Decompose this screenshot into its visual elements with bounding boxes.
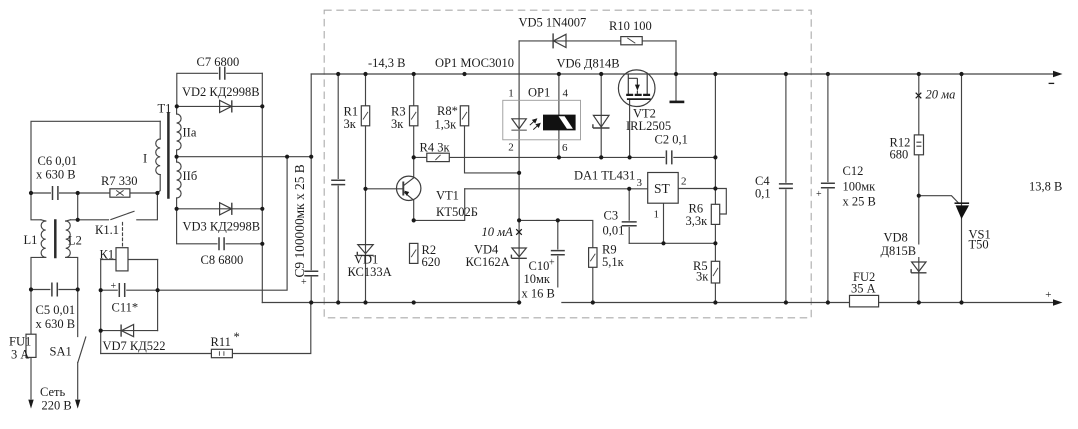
svg-text:Сеть: Сеть (40, 385, 66, 399)
wire C3 column (628, 189, 630, 244)
capacitor C4 (778, 183, 793, 190)
svg-text:+: + (549, 258, 555, 269)
node mains section (29, 191, 33, 195)
wire TL431 ref row (465, 188, 648, 190)
measurement cross 20mA (916, 93, 922, 99)
diode VD7 (121, 325, 134, 337)
svg-text:620: 620 (422, 255, 441, 269)
svg-text:VD2 КД2998В: VD2 КД2998В (182, 85, 260, 99)
svg-text:С9 100000мк х 25 В: С9 100000мк х 25 В (292, 164, 307, 277)
wire VT1 emitter lead (413, 200, 415, 220)
svg-text:VD5 1N4007: VD5 1N4007 (519, 16, 587, 30)
svg-text:3: 3 (637, 177, 643, 189)
svg-text:VT1: VT1 (436, 189, 459, 203)
zener diode VD4 (511, 248, 526, 258)
svg-text:IIб: IIб (183, 169, 198, 183)
wire top-left loop (31, 121, 160, 193)
capacitor C10 (electrolytic) (550, 250, 565, 256)
chassis ground (670, 101, 685, 104)
svg-text:х 630 В: х 630 В (36, 317, 76, 331)
svg-text:10 мА: 10 мА (482, 225, 514, 239)
wire VD5/R10 row (519, 40, 676, 42)
wire VD7 row (101, 330, 158, 332)
svg-text:С6 0,01: С6 0,01 (38, 154, 78, 168)
wire R1/VD1 column (365, 74, 367, 303)
wire R4 / gate row (414, 156, 716, 158)
svg-text:КС133А: КС133А (348, 265, 392, 279)
wire OP1 pin1/pin2 column (518, 41, 520, 303)
svg-text:VD8: VD8 (884, 231, 908, 245)
svg-text:КС162А: КС162А (466, 255, 510, 269)
node top bus junctions (336, 72, 340, 76)
capacitor C1 (331, 179, 346, 186)
wire R10 riser (675, 41, 677, 74)
switch SA1 blade (78, 337, 86, 362)
resistor R6 (trimmer) (711, 204, 719, 224)
diode VD5 (553, 33, 566, 48)
wire C5 row (31, 289, 78, 291)
switch K1.1 blade (111, 211, 134, 219)
svg-text:IRL2505: IRL2505 (626, 119, 671, 133)
wire C2/R6/R5 column (714, 74, 716, 303)
svg-text:35 А: 35 А (851, 282, 876, 296)
transformer T1 winding IIa (176, 106, 178, 114)
svg-text:10мк: 10мк (524, 272, 551, 286)
svg-text:0,1: 0,1 (755, 187, 771, 201)
resistor R4 (427, 153, 450, 161)
zener diode VD8 (911, 262, 926, 273)
svg-text:С3: С3 (604, 209, 619, 223)
fuse FU1 (26, 334, 36, 357)
node OP1 pin2 column (517, 171, 521, 175)
transformer T1 winding IIb (176, 157, 178, 162)
opto LED (511, 119, 526, 130)
svg-text:+: + (1045, 289, 1051, 301)
opto triac (543, 115, 576, 131)
svg-text:I: I (143, 152, 147, 166)
arrow plus output (1053, 299, 1063, 305)
svg-text:DA1 TL431: DA1 TL431 (574, 169, 635, 183)
resistor R11 (211, 349, 232, 357)
svg-text:+: + (816, 189, 822, 200)
svg-text:FU1: FU1 (9, 335, 31, 349)
svg-text:5,1к: 5,1к (602, 255, 625, 269)
resistor R8 (460, 106, 468, 126)
optocoupler OP1 box (503, 100, 581, 140)
wire SA1 column (77, 290, 79, 399)
minus bus (top, -14,3 V) (311, 73, 1055, 75)
svg-text:1: 1 (508, 88, 514, 100)
wire riser top-bus to center tap (310, 74, 312, 157)
svg-text:L2: L2 (68, 234, 82, 248)
capacitor C8 (218, 237, 226, 251)
IC DA1 TL431 box (648, 173, 679, 204)
wire VT2 gate lead (629, 99, 631, 157)
plus bus (bottom) (262, 302, 1055, 304)
resistor R3 (410, 106, 418, 126)
resistor R7 (110, 189, 130, 197)
svg-text:ОР1 МОС3010: ОР1 МОС3010 (435, 56, 514, 70)
fuse FU2 (850, 295, 879, 307)
wire TL431 pin2 row (678, 188, 715, 190)
svg-text:+: + (111, 281, 117, 292)
svg-text:4: 4 (563, 88, 569, 100)
svg-text:Д815В: Д815В (881, 244, 917, 258)
svg-text:С10: С10 (529, 259, 550, 273)
node gate row (412, 155, 416, 159)
svg-text:-14,3 В: -14,3 В (368, 56, 406, 70)
svg-text:+: + (301, 277, 307, 288)
svg-text:ST: ST (654, 181, 671, 196)
svg-text:К1.1: К1.1 (95, 223, 119, 237)
svg-text:1: 1 (654, 209, 660, 221)
wire L2 leads (70, 220, 77, 290)
wire emitter to TL431 ref dogleg (414, 189, 465, 221)
node bottom bus junctions (309, 300, 313, 304)
wire C8 row (177, 209, 263, 244)
svg-text:680: 680 (890, 148, 909, 162)
resistor R2 (410, 243, 418, 263)
wire C6 row (31, 192, 157, 194)
resistor R12 (914, 135, 923, 155)
wire C10 column (557, 220, 559, 302)
arrow mains right (75, 400, 80, 409)
wire C11 row to center-tap riser (101, 157, 287, 291)
wire R3 column (413, 74, 415, 157)
svg-text:К1: К1 (100, 248, 115, 262)
resistor R1 (361, 106, 369, 126)
wire R8 lead lower (465, 126, 520, 173)
wire C9 column (310, 157, 312, 303)
svg-text:R10 100: R10 100 (609, 19, 652, 33)
transistor VT1 (397, 176, 421, 200)
zener diode VD1 (357, 245, 373, 256)
wire relay left column (100, 260, 102, 354)
node R12 gate junction (917, 194, 921, 198)
svg-text:1,3к: 1,3к (435, 118, 458, 132)
dashed regulator enclosure (324, 10, 811, 318)
wire thyristor gate row (919, 196, 959, 203)
wire VD2 row (177, 105, 262, 107)
svg-text:С2 0,1: С2 0,1 (655, 133, 688, 147)
svg-text:3к: 3к (391, 117, 404, 131)
node ref row / DA1 (363, 187, 367, 191)
wire relay right column (157, 260, 159, 331)
svg-text:R11: R11 (211, 335, 231, 349)
svg-text:2: 2 (681, 176, 687, 188)
capacitor C2 (665, 150, 673, 165)
svg-text:SA1: SA1 (50, 345, 72, 359)
svg-text:R4 3к: R4 3к (420, 141, 451, 155)
node rectifier (175, 104, 179, 108)
svg-text:КТ502Б: КТ502Б (436, 205, 478, 219)
svg-text:R7 330: R7 330 (101, 174, 137, 188)
wire C4 column (785, 74, 787, 303)
svg-text:VD6 Д814В: VD6 Д814В (557, 57, 620, 71)
measurement cross 10mA (516, 229, 522, 235)
wire VD6 column (600, 74, 602, 157)
capacitor C7 (218, 66, 226, 80)
svg-text:2: 2 (508, 142, 514, 154)
diode VD3 (220, 203, 232, 215)
wire VD3 row (177, 208, 263, 210)
arrow mains left (28, 400, 33, 409)
svg-text:*: * (234, 330, 240, 344)
capacitor C3 (621, 221, 637, 227)
wire R12/VD8 column (918, 74, 920, 303)
svg-text:L1: L1 (24, 233, 38, 247)
svg-text:Т50: Т50 (969, 238, 989, 252)
relay coil K1 (116, 248, 128, 271)
capacitor C11 (118, 283, 126, 298)
transformer T1 core (167, 114, 170, 198)
thyristor VS1 (955, 203, 970, 219)
svg-text:3к: 3к (344, 117, 357, 131)
relay coil K1 leads (101, 259, 158, 261)
choke core bar (54, 221, 57, 258)
zener diode VD6 (593, 115, 610, 128)
svg-text:20 ма: 20 ма (926, 88, 956, 102)
wire 10mA row (C10/R9 branch) (519, 220, 593, 302)
node VT1 emitter (412, 218, 416, 222)
svg-text:Т1: Т1 (158, 102, 172, 116)
svg-text:0,01: 0,01 (603, 224, 625, 238)
wire rectifier right column to plus bus (261, 73, 263, 302)
mechanical link K1.1-K1 (dashed) (122, 223, 124, 248)
resistor R5 (711, 261, 719, 283)
arrow minus output (1053, 71, 1063, 77)
svg-text:х 25 В: х 25 В (843, 195, 876, 209)
resistor R10 (621, 37, 642, 45)
wire VT1 collector lead (413, 157, 415, 176)
wire TL431 pin1 lead (663, 203, 665, 243)
wire C7 row (177, 73, 262, 106)
capacitor C5 (50, 282, 58, 297)
wire OP1 pin6 lead (558, 130, 560, 157)
wire C3/R6-bottom row (629, 242, 715, 244)
inductor L2 (66, 221, 71, 257)
svg-text:С5 0,01: С5 0,01 (36, 303, 76, 317)
wire C12 column (827, 74, 829, 303)
transistor VT2 (MOSFET) (618, 70, 655, 107)
svg-text:6: 6 (562, 142, 568, 154)
resistor R9 (589, 248, 597, 268)
svg-text:х 16 В: х 16 В (522, 287, 555, 301)
wire VT1 base lead (366, 188, 404, 190)
wire K1.1 branch (78, 193, 158, 220)
wire VS1 column (961, 74, 963, 303)
svg-text:С7 6800: С7 6800 (197, 55, 240, 69)
svg-text:R8*: R8* (437, 104, 458, 118)
opto light arrows (530, 119, 540, 130)
svg-text:VD7 КД522: VD7 КД522 (103, 339, 166, 353)
wire L1 leads (31, 193, 41, 290)
wire ground stub (675, 74, 677, 101)
wire OP1 pin4 riser (558, 74, 560, 115)
capacitor C12 (electrolytic) (820, 182, 835, 189)
wire center tap to C9/top-bus riser (177, 156, 312, 158)
wire FU1 column (30, 290, 32, 399)
diode VD2 (220, 100, 232, 112)
svg-text:IIа: IIа (183, 126, 197, 140)
label minus (1049, 82, 1055, 84)
svg-text:13,8 В: 13,8 В (1029, 180, 1062, 194)
wire R11 row and riser (101, 303, 311, 354)
inductor L1 (41, 221, 46, 257)
svg-text:С12: С12 (843, 164, 864, 178)
svg-text:3 А: 3 А (11, 348, 29, 362)
svg-text:х 630 В: х 630 В (36, 168, 76, 182)
svg-text:3к: 3к (696, 270, 709, 284)
svg-text:100мк: 100мк (843, 180, 877, 194)
svg-text:С8 6800: С8 6800 (201, 253, 244, 267)
svg-text:ОР1: ОР1 (528, 86, 550, 100)
capacitor C6 (51, 186, 59, 201)
transformer T1 primary winding I (159, 121, 161, 139)
wire C1 column (337, 74, 339, 303)
svg-text:3,3к: 3,3к (686, 214, 709, 228)
svg-text:С11*: С11* (112, 301, 139, 315)
svg-text:220 В: 220 В (42, 399, 72, 413)
node center tap wire (175, 155, 179, 159)
svg-text:VD3 КД2998В: VD3 КД2998В (183, 220, 261, 234)
capacitor C9 (electrolytic) (304, 270, 319, 276)
wire R6 wiper (715, 189, 726, 215)
